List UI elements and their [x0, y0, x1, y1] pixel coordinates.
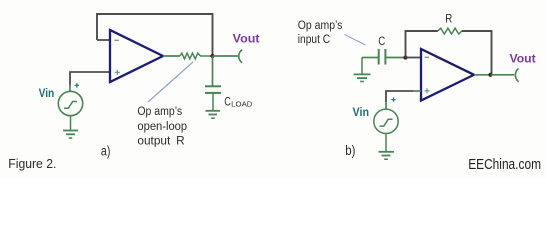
wire feedback loop a [97, 14, 213, 56]
ground under C_LOAD [206, 111, 221, 118]
wire node to op-amp b [406, 57, 422, 59]
wire op-amp a output [163, 55, 180, 57]
wire feedback loop b [406, 31, 492, 75]
svg-text:C: C [378, 34, 385, 48]
svg-text:Vout: Vout [233, 34, 260, 46]
svg-text:Vout: Vout [510, 53, 536, 65]
ground under Vin a [63, 116, 78, 138]
wire capacitor to node b [386, 57, 406, 59]
capacitor C_LOAD [205, 86, 221, 110]
resistor R [438, 28, 462, 34]
svg-text:R: R [445, 12, 452, 26]
capacitor C (input capacitance) [379, 49, 386, 65]
annotation line a [148, 62, 193, 102]
svg-text:Vin: Vin [39, 88, 55, 100]
wire source stub a [69, 84, 71, 91]
node output b [488, 73, 492, 77]
svg-text:Vin: Vin [353, 107, 370, 119]
op-amp b [421, 49, 474, 101]
output terminal b [515, 69, 518, 82]
svg-text:C: C [224, 95, 231, 109]
wire op-amp b output [474, 74, 491, 76]
svg-text:EEChina.com: EEChina.com [468, 157, 541, 173]
voltage source Vin a [58, 83, 82, 116]
node inverting input b [403, 55, 407, 59]
wire ground to capacitor b [362, 57, 378, 59]
wire non-inverting input b [386, 91, 413, 102]
op-amp a [110, 30, 163, 82]
wire node to capacitor a [212, 56, 214, 86]
voltage source Vin b [374, 97, 398, 133]
wire non-inverting input a [70, 72, 110, 85]
svg-text:Op amp’s: Op amp’s [137, 106, 182, 118]
ground at input C [354, 58, 371, 82]
svg-text:Op amp’s: Op amp’s [298, 20, 343, 32]
output terminal a [239, 50, 242, 63]
svg-text:Figure 2.: Figure 2. [8, 156, 56, 171]
resistor open-loop output R [180, 53, 213, 59]
wire source stub b [385, 101, 387, 109]
svg-text:input C: input C [298, 34, 330, 46]
svg-text:open-loop: open-loop [137, 121, 187, 133]
svg-text:output R: output R [137, 135, 184, 147]
svg-text:LOAD: LOAD [231, 99, 253, 108]
wire non-inverting tail b [413, 90, 421, 92]
annotation line b [345, 35, 366, 46]
wire to output terminal b [491, 74, 515, 76]
svg-text:a): a) [101, 144, 111, 159]
node output a [210, 54, 214, 58]
svg-text:b): b) [345, 143, 355, 158]
ground under Vin b [379, 134, 395, 160]
wire inverting input a [97, 39, 110, 41]
wire to output terminal a [213, 55, 239, 57]
